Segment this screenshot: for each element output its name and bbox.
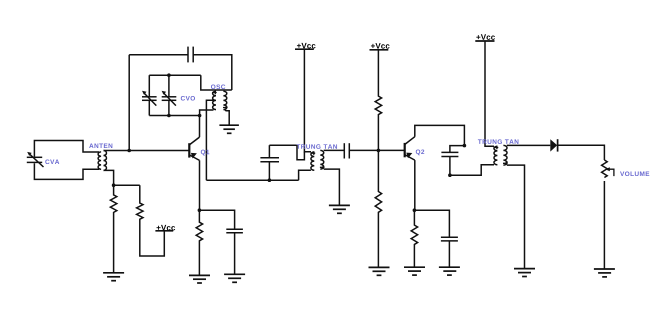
pin tick TR1 bottom	[320, 166, 325, 169]
wire CVA loop bottom	[34, 163, 99, 179]
wire diode to volume	[558, 145, 605, 160]
wire TR2 primary bottom	[450, 165, 494, 175]
wire TR2 secondary top to diode	[507, 144, 551, 146]
label OSC	[211, 84, 225, 89]
wire ANTEN secondary top to Q1 base	[104, 150, 190, 152]
pin tick OSC top	[212, 91, 217, 94]
label TRUNG TAN (IF2)	[478, 139, 519, 144]
power +Vcc (Q2 bias)	[370, 49, 389, 51]
ground (emitter2 bypass)	[439, 267, 460, 275]
wire OSC top rail	[201, 75, 232, 90]
transistor Q1	[189, 137, 199, 160]
wire emitter2 to bypass cap	[414, 210, 449, 237]
label TRUNG TAN (IF1)	[296, 144, 337, 149]
pin tick TR2 top	[494, 146, 499, 149]
node emitter junction dot	[198, 208, 202, 212]
ground (Q1 emitter)	[189, 275, 210, 283]
label ANTEN	[89, 144, 112, 148]
transformer OSC primary winding	[213, 91, 216, 109]
capacitor CVA (variable, antenna tuning)	[27, 152, 44, 167]
wire Q1 collector riser	[199, 116, 201, 138]
wire CVA loop top	[34, 141, 99, 157]
wire CVO bottom rail	[149, 115, 199, 117]
wire cap2 to ground	[448, 241, 450, 267]
node collector junction dot	[198, 114, 202, 118]
transformer TRUNG-TAN2 primary winding	[494, 146, 497, 165]
label CVA	[45, 159, 59, 164]
wire OSC secondary bottom to ground	[225, 110, 229, 125]
node CVO top dot	[167, 73, 171, 77]
capacitor C-tank1	[260, 145, 279, 180]
wire TR2 secondary bottom to ground	[507, 165, 525, 269]
capacitor CVO-b (variable)	[162, 75, 177, 115]
wire TR1 secondary top to coupling cap	[324, 149, 345, 151]
wire TR1 primary bottom	[299, 170, 311, 180]
ground (antenna bias)	[103, 273, 124, 281]
wire TR1 secondary bottom to ground	[324, 169, 340, 205]
ground (emitter bypass)	[224, 274, 245, 282]
wire +Vcc drop to TR2	[485, 41, 494, 146]
wire Q2 emitter drop	[414, 160, 416, 210]
wire collector node to tank cap2	[450, 146, 465, 153]
ground (oscillator)	[219, 125, 239, 133]
node bias junction dot	[112, 183, 116, 187]
wire Q1 emitter drop	[199, 160, 201, 210]
wire coupling cap to Q2 base	[349, 149, 404, 151]
capacitor C-emitter2	[441, 237, 458, 241]
wire ANTEN secondary bottom	[104, 170, 140, 185]
wire oscillator feedback top right	[193, 55, 232, 90]
resistor R-bias2	[137, 185, 165, 256]
node tank cap2 dot	[448, 173, 452, 177]
wire OSC tap down to IF line	[206, 100, 213, 180]
wire oscillator feedback top left	[129, 54, 188, 56]
wire IF line to TR1	[206, 179, 298, 181]
pin tick OSC bottom	[223, 106, 228, 109]
capacitor CVO-a (variable)	[142, 75, 157, 115]
transformer ANTEN secondary winding	[104, 151, 107, 171]
diode D1 (detector)	[550, 139, 557, 151]
node base junction dot	[127, 149, 131, 153]
capacitor C-emitter1	[226, 229, 243, 233]
ground (Q2 bias divider)	[369, 267, 390, 275]
wiper arrow VOLUME	[609, 169, 614, 176]
pin tick TR2 bottom	[503, 162, 508, 165]
potentiometer VOLUME	[602, 160, 608, 178]
transformer ANTEN primary winding	[98, 152, 101, 169]
label Q2	[416, 149, 424, 155]
transformer TRUNG-TAN1 primary winding	[311, 152, 314, 170]
ground (Q2 emitter)	[404, 267, 425, 275]
wire emitter to bypass cap	[199, 210, 234, 229]
label CVO	[181, 96, 195, 101]
transformer TRUNG-TAN2 secondary winding	[503, 145, 507, 165]
power +Vcc (IF1 feed)	[295, 48, 314, 50]
capacitor C-tank2	[441, 152, 458, 156]
transformer OSC secondary winding	[223, 91, 226, 109]
wire +Vcc drop to TR1	[304, 49, 311, 152]
transistor Q2	[405, 137, 415, 160]
label Q1	[201, 150, 210, 156]
wire tank cap2 bottom	[449, 157, 451, 176]
resistor R-emitter1	[196, 210, 202, 275]
node Q2 base junction dot	[377, 149, 381, 153]
wire OSC primary bottom to collector node	[200, 110, 214, 116]
wire tank cap top jog	[269, 145, 304, 160]
capacitor C-feedback	[188, 47, 193, 63]
power +Vcc (IF2 feed)	[475, 40, 494, 42]
transformer TRUNG-TAN1 secondary winding	[320, 150, 323, 169]
ground (volume)	[594, 269, 615, 277]
resistor R-base-up	[375, 50, 381, 151]
wire cap to ground	[234, 233, 236, 274]
resistor R-bias1	[110, 185, 116, 273]
node TR2 collector dot	[463, 144, 467, 148]
ground (IF2 secondary)	[514, 269, 535, 277]
power +Vcc (bias)	[155, 230, 173, 232]
pin tick TR1 top	[311, 152, 316, 155]
label VOLUME	[620, 171, 649, 176]
wire feedback riser	[128, 55, 130, 151]
wire CVO top rail	[149, 74, 201, 76]
node Q2 emitter dot	[413, 208, 417, 212]
wire Q2 collector to TR2	[415, 125, 465, 145]
wire volume to ground	[603, 181, 605, 269]
node tank cap dot	[268, 178, 272, 182]
ground (IF1 secondary)	[329, 205, 350, 213]
node CVO bottom dot	[167, 114, 171, 118]
resistor R-emitter2	[411, 210, 417, 267]
capacitor C-couple	[344, 143, 349, 158]
resistor R-base-down	[375, 150, 381, 267]
